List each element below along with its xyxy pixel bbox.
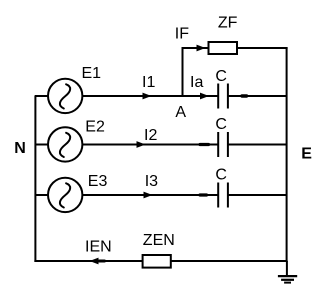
- wire right bus E vertical: [286, 47, 288, 262]
- wire stub row 2: [35, 144, 49, 146]
- wire row 3 right segment: [228, 194, 287, 196]
- wire IF loop vertical from node A: [182, 47, 184, 96]
- resistor ZF: [209, 42, 238, 54]
- resistor ZEN: [143, 255, 171, 268]
- svg-text:IF: IF: [175, 26, 189, 43]
- ground: [278, 261, 297, 283]
- arrow IF: [197, 45, 206, 52]
- wire overlap blob row 3: [200, 193, 207, 196]
- capacitor C row 2: [218, 132, 228, 157]
- wire left bus N vertical: [34, 95, 36, 262]
- ac source E2: [48, 127, 82, 161]
- svg-text:I2: I2: [144, 127, 157, 144]
- wire stub row 3: [35, 194, 49, 196]
- wire row 3 main segment: [82, 194, 218, 196]
- wire row 1 main segment: [82, 95, 218, 97]
- wire overlap blob row 1: [242, 94, 247, 97]
- svg-text:N: N: [14, 140, 26, 157]
- wire top ZF right segment: [237, 47, 288, 49]
- capacitor C row 1: [218, 84, 228, 109]
- wire bottom horizontal: [34, 260, 287, 262]
- svg-text:IEN: IEN: [85, 239, 112, 256]
- capacitor C row 3: [218, 183, 228, 208]
- svg-text:I3: I3: [145, 173, 158, 190]
- svg-text:E2: E2: [85, 119, 105, 136]
- svg-text:E3: E3: [88, 173, 108, 190]
- wire overlap blob row 2: [200, 143, 209, 146]
- svg-text:E: E: [301, 146, 312, 163]
- wire top ZF left segment: [182, 47, 209, 49]
- svg-text:C: C: [215, 167, 227, 184]
- svg-text:ZEN: ZEN: [143, 232, 175, 249]
- wire row 1 right segment: [228, 95, 287, 97]
- wire row 2 right segment: [228, 144, 287, 146]
- wire overlap blob bottom: [99, 260, 105, 263]
- arrow I1: [143, 93, 152, 100]
- arrow Ia: [200, 93, 209, 100]
- ac source E3: [48, 178, 82, 212]
- svg-text:A: A: [175, 104, 186, 121]
- arrow I2: [137, 141, 146, 148]
- svg-text:C: C: [215, 116, 227, 133]
- svg-text:C: C: [215, 68, 227, 85]
- arrow IEN: [90, 258, 99, 265]
- wire stub row 1: [35, 95, 49, 97]
- svg-text:E1: E1: [82, 65, 102, 82]
- svg-text:ZF: ZF: [218, 14, 238, 31]
- svg-text:Ia: Ia: [190, 74, 203, 91]
- arrow I3: [144, 192, 153, 199]
- svg-text:I1: I1: [142, 74, 155, 91]
- ac source E1: [48, 79, 82, 113]
- wire row 2 main segment: [82, 144, 218, 146]
